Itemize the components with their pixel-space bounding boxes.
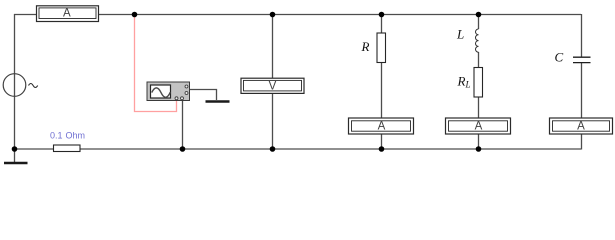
wire: right vertical below capacitor: [581, 63, 583, 150]
wire: voltmeter branch: [272, 14, 274, 150]
node: bottom rail / voltmeter junction: [270, 146, 276, 152]
svg-text:0.1: 0.1: [50, 131, 63, 141]
svg-text:Ohm: Ohm: [66, 131, 86, 141]
voltmeter V: [241, 78, 304, 93]
node: bottom rail / R junction: [379, 146, 385, 152]
wire: L branch lower: [478, 52, 480, 150]
node: top rail / voltmeter junction: [270, 12, 276, 18]
svg-text:R: R: [361, 39, 370, 54]
ammeter A (L branch): [446, 118, 511, 134]
wire: top rail: [14, 14, 581, 16]
svg-text:V: V: [269, 80, 277, 92]
wire: left vertical (source branch): [14, 14, 16, 150]
oscilloscope: [147, 82, 190, 101]
svg-text:L: L: [456, 27, 464, 42]
wire: scope right lead to ground: [189, 90, 217, 101]
svg-text:A: A: [475, 121, 483, 133]
node: top rail / red probe junction: [132, 12, 138, 18]
node: bottom rail / source-ground junction: [12, 146, 18, 152]
node: top rail / L junction: [476, 12, 482, 18]
wire: red scope probe (tap from top rail to scope input): [135, 14, 177, 112]
svg-text:A: A: [63, 8, 71, 20]
wire: right vertical above capacitor: [581, 14, 583, 57]
svg-text:C: C: [555, 50, 564, 65]
ammeter A (main, top): [37, 6, 99, 22]
svg-text:A: A: [378, 121, 386, 133]
capacitor C: [573, 57, 591, 62]
ground (left): [4, 162, 28, 165]
node: top rail / R junction: [379, 12, 385, 18]
ammeter A (R branch): [349, 118, 414, 134]
ground (scope): [206, 100, 230, 103]
wire: R branch: [381, 14, 383, 150]
AC source: [3, 74, 37, 97]
svg-text:A: A: [577, 121, 585, 133]
resistor RL (coil resistance): [474, 68, 483, 98]
resistor R: [377, 33, 386, 63]
wire: left ground stub: [14, 150, 16, 163]
resistor 0.1 Ohm (shunt): [54, 145, 81, 152]
wire: bottom rail: [14, 148, 581, 150]
wire: L branch upper stub: [478, 14, 480, 29]
wire: scope bottom lead down to bottom rail: [182, 99, 184, 150]
ammeter A (C branch): [550, 118, 613, 134]
node: bottom rail / L junction: [476, 146, 482, 152]
node: bottom rail / scope lead junction: [180, 146, 186, 152]
inductor L: [475, 29, 478, 52]
